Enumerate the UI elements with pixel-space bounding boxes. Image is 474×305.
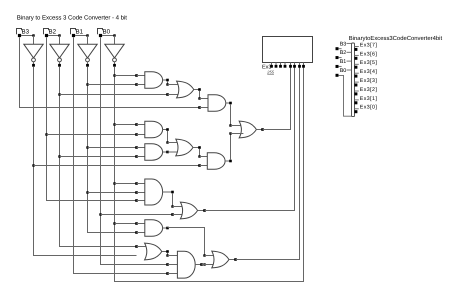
wire net ~B1 (inverter column, elbow to G9 input) bbox=[88, 67, 145, 234]
wire net B3 (pin column, elbow to AND gate G3 input) bbox=[20, 37, 209, 109]
legend block body bbox=[352, 43, 355, 117]
OR gate G6 bbox=[176, 139, 201, 156]
inverter U2 (NOT B2) bbox=[50, 44, 69, 67]
AND gate G6b bbox=[145, 144, 180, 160]
legend output pin Ex3[4] bbox=[354, 69, 377, 78]
svg-text:BinarytoExcess3CodeConverter4b: BinarytoExcess3CodeConverter4bit bbox=[349, 35, 443, 42]
inverter U3 (NOT B1) bbox=[78, 44, 97, 67]
junction B0 to G8b input bbox=[99, 213, 184, 216]
wire G1 output to G2 input bbox=[166, 81, 181, 86]
svg-text:B2: B2 bbox=[49, 29, 57, 36]
svg-text:B1: B1 bbox=[340, 59, 347, 65]
junction ~B0 to G5 input bbox=[113, 123, 145, 126]
junction ~B2 to G2 input bbox=[58, 93, 181, 96]
legend input pin B2 bbox=[336, 50, 352, 59]
wire net B2 (pin column, elbow to G8a input) bbox=[47, 37, 145, 202]
AND gate G1 bbox=[145, 72, 169, 89]
wire B3 pin to inverter bbox=[21, 34, 35, 44]
inverter U4 (NOT B0) bbox=[105, 44, 124, 67]
svg-text:Ex3[5]: Ex3[5] bbox=[360, 60, 378, 66]
svg-text:B2: B2 bbox=[340, 50, 347, 56]
AND gate G9 bbox=[145, 220, 169, 237]
svg-text:Ex3[6]: Ex3[6] bbox=[360, 51, 378, 57]
legend output pin Ex3[6] bbox=[354, 51, 377, 60]
svg-text:B0: B0 bbox=[340, 68, 347, 74]
OR gate G8b bbox=[180, 202, 205, 219]
wire B1 pin to inverter bbox=[75, 34, 89, 44]
wire G5 output to G6 input bbox=[166, 131, 180, 144]
wire B2 pin to inverter bbox=[48, 34, 61, 44]
wire net B1 (pin column, elbow to G10 input) bbox=[74, 37, 178, 275]
AND gate G3 bbox=[208, 95, 232, 112]
AND gate G8a (3-input) bbox=[145, 179, 174, 205]
wire net ~B2 (inverter column, elbow to G10a input) bbox=[60, 67, 149, 248]
svg-text:Ex3[7]: Ex3[7] bbox=[360, 42, 378, 48]
legend output pin Ex3[1] bbox=[354, 96, 377, 105]
svg-text:B0: B0 bbox=[103, 29, 111, 36]
AND gate G10 (3-input) bbox=[177, 251, 202, 278]
wire G6 output to G7b input bbox=[198, 149, 207, 158]
legend output pin Ex3[5] bbox=[354, 60, 377, 69]
wire G10a output to G10 input bbox=[166, 253, 177, 257]
legend input pin B0 bbox=[336, 68, 352, 77]
svg-text:Ex3[0]: Ex3[0] bbox=[360, 105, 378, 111]
junction B2 to G5 input bbox=[45, 133, 145, 136]
OR gate G11 bbox=[212, 251, 237, 268]
legend output pin Ex3[0] bbox=[354, 105, 377, 114]
svg-text:Ex3[2]: Ex3[2] bbox=[360, 87, 378, 93]
junction ~B1 to G8a input bbox=[86, 191, 145, 194]
wire G4 output to display pin 5 bbox=[263, 67, 291, 129]
input pin B0 bbox=[98, 29, 111, 38]
inverter U1 (NOT B3) bbox=[24, 44, 43, 67]
legend input pin B1 bbox=[336, 59, 352, 68]
AND gate G5 bbox=[145, 121, 169, 138]
junction ~B1 to G6b input bbox=[86, 146, 145, 149]
input pin B3 bbox=[17, 29, 30, 38]
junction ~B2 to G6b input bbox=[58, 155, 145, 158]
legend output pin Ex3[7] bbox=[354, 42, 377, 51]
svg-text:255: 255 bbox=[266, 69, 274, 74]
svg-text:Ex3[3]: Ex3[3] bbox=[360, 78, 378, 84]
svg-text:B1: B1 bbox=[76, 29, 84, 36]
junction ~B0 to G8a input bbox=[113, 182, 145, 185]
wire net ~B3 (inverter column) bbox=[34, 67, 137, 256]
legend input pin B3 bbox=[336, 41, 352, 50]
label Ex3 bbox=[262, 65, 275, 75]
junction ~B3 to G7b input bbox=[32, 164, 207, 167]
svg-text:Ex3[4]: Ex3[4] bbox=[360, 69, 378, 75]
wire G2 output to G3 input bbox=[198, 91, 208, 100]
wire G8b output to display pin 6 bbox=[205, 67, 295, 210]
wire G7b output up to G4 input bbox=[229, 132, 243, 160]
OR gate G2 bbox=[177, 81, 201, 98]
wire net B0 (pin column, elbow to G10 input) bbox=[101, 37, 178, 266]
legend output pin Ex3[3] bbox=[354, 78, 377, 87]
junction ~B1 to G1 input bbox=[86, 83, 145, 86]
wire net ~B0 (inverter column, long route to display pin 8) bbox=[115, 67, 304, 282]
svg-text:B3: B3 bbox=[22, 29, 30, 36]
svg-text:B3: B3 bbox=[340, 41, 347, 47]
wire legend B0 tail bbox=[339, 75, 352, 116]
junction ~B0 to G9 input bbox=[113, 222, 145, 225]
wire G11 output to display pin 7 bbox=[236, 67, 300, 259]
svg-text:Binary to Excess 3 Code Conver: Binary to Excess 3 Code Converter - 4 bi… bbox=[17, 14, 127, 21]
wire G10 output to G11 input bbox=[202, 263, 216, 265]
wire G9 output to G11 input bbox=[168, 228, 216, 257]
junction ~B0 to G1 input bbox=[113, 74, 145, 77]
AND gate G7b bbox=[207, 153, 232, 170]
wire G8a output to G8b input bbox=[171, 193, 185, 208]
wire B0 pin to inverter bbox=[102, 34, 116, 44]
input pin B2 bbox=[44, 29, 57, 38]
OR gate G4 bbox=[239, 121, 264, 138]
svg-text:Ex3[1]: Ex3[1] bbox=[360, 96, 378, 102]
legend output pin Ex3[2] bbox=[354, 87, 377, 96]
wire G3 output to G4 input bbox=[229, 104, 243, 127]
OR gate G10a bbox=[145, 243, 169, 260]
input pin B1 bbox=[71, 29, 84, 38]
display block Ex3 bbox=[263, 37, 313, 68]
